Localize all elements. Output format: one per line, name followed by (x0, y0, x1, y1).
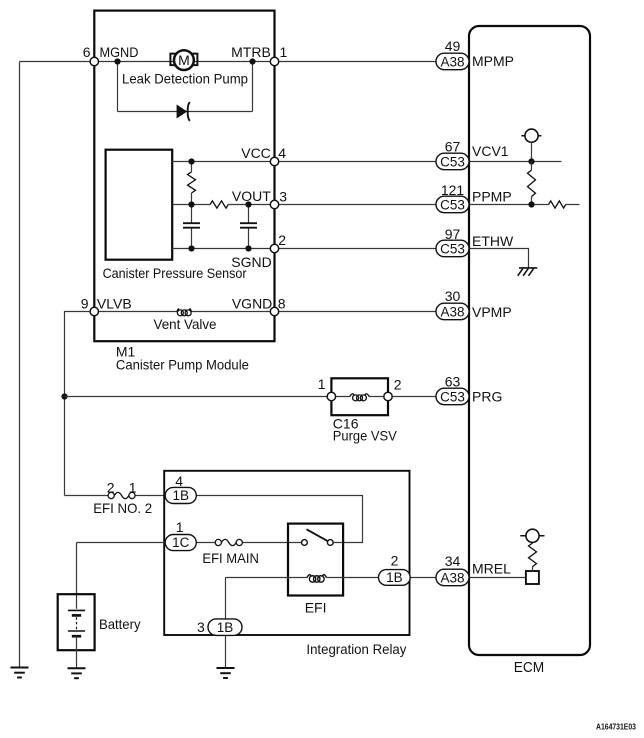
svg-text:C53: C53 (440, 154, 465, 169)
svg-text:C53: C53 (440, 241, 465, 256)
wire: EFI NO.2 fuse row (65, 495, 166, 497)
wire: VLVB stub and branch vertical (65, 312, 95, 496)
pin: VSV pin 1 terminal (327, 392, 335, 400)
connector: ECM C53 pin 121 (PPMP) (436, 196, 469, 213)
svg-text:A38: A38 (440, 304, 464, 319)
connector: ECM C53 pin 97 (ETHW) (436, 240, 469, 257)
pin: module pin 2 terminal (270, 244, 278, 252)
wire: relay pin4 to switch (196, 496, 362, 543)
svg-text:121: 121 (441, 182, 465, 198)
pin: module pin 4 terminal (270, 157, 278, 165)
pin: module pin 3 terminal (270, 200, 278, 208)
wire: battery feed vertical (76, 543, 78, 609)
node: VOUT-cap junction (245, 201, 251, 207)
svg-text:VPMP: VPMP (472, 304, 512, 320)
capacitor: VOUT filter b (240, 223, 257, 228)
wire: diode branch left vertical (117, 62, 119, 112)
svg-text:1B: 1B (217, 620, 234, 635)
wire: MGND/MTRB/MPMP top bus (20, 61, 437, 63)
node: junction MGND-diode (114, 58, 120, 64)
svg-text:1: 1 (129, 479, 137, 495)
svg-text:2: 2 (394, 377, 402, 393)
svg-text:2: 2 (278, 232, 286, 248)
fuse: EFI MAIN (215, 539, 242, 545)
svg-text:MGND: MGND (100, 44, 139, 60)
svg-text:1C: 1C (172, 535, 190, 550)
wire: far-left vertical ground bus (19, 62, 21, 668)
svg-text:Leak Detection Pump: Leak Detection Pump (122, 71, 248, 87)
svg-text:1: 1 (318, 376, 326, 392)
purge VSV C16 box (331, 378, 388, 415)
svg-text:A38: A38 (440, 54, 464, 69)
EFI relay inner box (288, 524, 343, 596)
ground: ETHW chassis ground (518, 268, 538, 276)
node: PPMP junction (528, 201, 534, 207)
power: B+ symbol above VCV1 (521, 129, 541, 161)
canister pump module M1 box (94, 11, 274, 342)
wire: vent valve row (94, 311, 436, 313)
wire: VOUT cap column (248, 205, 250, 249)
wire: VCV1 inside ECM (469, 161, 561, 163)
power: B+ symbol above MREL (520, 529, 544, 542)
svg-text:2: 2 (391, 552, 399, 568)
resistor: MREL pull-up (532, 567, 534, 571)
svg-text:Canister Pressure Sensor: Canister Pressure Sensor (103, 265, 247, 281)
svg-text:6: 6 (83, 44, 91, 60)
svg-text:EFI NO. 2: EFI NO. 2 (93, 500, 152, 516)
diode D1 (pump reverse protection) (177, 102, 190, 121)
ground: battery ground (68, 668, 86, 678)
svg-text:A164731E03: A164731E03 (596, 722, 636, 732)
integration relay box (164, 471, 409, 635)
node: SGND junction a (188, 245, 194, 251)
connector: relay pin 4 oval 1B (165, 487, 196, 503)
wire: EFI MAIN row (77, 542, 302, 544)
wire: VOUT row (172, 204, 436, 206)
node: PRG branch junction (61, 393, 67, 399)
ECM box (469, 26, 590, 655)
canister pressure sensor box (106, 150, 173, 260)
ground: relay pin 3 ground (217, 668, 235, 678)
inductor: vent valve coil (177, 309, 192, 316)
connector: ECM A38 pin 49 (MPMP) (436, 53, 469, 69)
svg-text:A38: A38 (440, 570, 464, 585)
wire: PRG row (65, 396, 437, 398)
svg-text:VGND: VGND (232, 296, 272, 312)
wire: EFI coil row (226, 577, 438, 579)
resistor: PPMP series (549, 201, 566, 208)
node: VCC junction (188, 158, 194, 164)
svg-text:9: 9 (81, 296, 89, 312)
load: MREL relay coil square (526, 571, 539, 584)
svg-text:VLVB: VLVB (97, 296, 132, 312)
svg-text:3: 3 (279, 189, 287, 205)
connector: relay pin 2 oval 1B (379, 570, 411, 586)
connector: relay pin 1 oval 1C (165, 535, 196, 551)
svg-text:49: 49 (445, 38, 461, 54)
wire: MREL inside ECM (469, 577, 526, 579)
svg-text:MTRB: MTRB (231, 44, 271, 60)
wire: SGND row (172, 248, 436, 250)
svg-text:Integration Relay: Integration Relay (306, 641, 406, 657)
svg-text:1: 1 (176, 519, 184, 535)
svg-text:Battery: Battery (99, 616, 141, 632)
resistor: sensor pull-up (188, 172, 196, 193)
node: VCV1 junction (528, 158, 534, 164)
connector: relay pin 3 oval 1B (208, 619, 242, 636)
svg-text:MPMP: MPMP (472, 53, 514, 69)
svg-text:30: 30 (445, 288, 461, 304)
wire: diode branch bottom horizontal (118, 111, 253, 113)
svg-text:63: 63 (445, 373, 461, 389)
svg-text:PPMP: PPMP (472, 188, 512, 204)
pin: VSV pin 2 terminal (384, 392, 392, 400)
svg-text:C53: C53 (440, 389, 465, 404)
battery cells symbol (68, 610, 85, 636)
svg-text:Canister Pump Module: Canister Pump Module (116, 356, 249, 372)
svg-text:Purge VSV: Purge VSV (333, 428, 398, 444)
svg-text:ECM: ECM (514, 659, 545, 676)
wire: PPMP inside ECM (469, 204, 580, 206)
svg-text:4: 4 (175, 473, 183, 489)
resistor: ECM pull-up VCV1-PPMP (531, 162, 533, 205)
pin: module pin 1 terminal (270, 57, 278, 65)
node: SGND junction b (245, 245, 251, 251)
resistor: VOUT series (210, 201, 228, 208)
fuse: EFI NO. 2 (108, 492, 135, 498)
wire: ETHW inside ECM (469, 249, 529, 268)
switch: EFI relay contacts (302, 529, 334, 545)
connector: ECM A38 pin 30 (VPMP) (436, 303, 469, 320)
svg-text:VOUT: VOUT (232, 188, 271, 204)
svg-text:2: 2 (107, 479, 115, 495)
svg-text:1: 1 (280, 44, 288, 60)
svg-text:4: 4 (278, 145, 286, 161)
connector: ECM C53 pin 67 (VCV1) (436, 153, 469, 170)
svg-text:M: M (178, 52, 190, 68)
svg-text:C53: C53 (440, 197, 465, 212)
svg-text:SGND: SGND (231, 254, 271, 270)
svg-text:VCC: VCC (241, 145, 271, 161)
inductor: EFI relay coil (307, 575, 327, 583)
svg-text:34: 34 (445, 553, 461, 569)
svg-text:97: 97 (445, 226, 461, 242)
svg-text:VCV1: VCV1 (472, 143, 509, 159)
svg-text:Vent Valve: Vent Valve (154, 316, 217, 332)
battery box (58, 594, 95, 650)
inductor: purge VSV coil (350, 394, 369, 401)
pin: module pin 9 terminal (90, 307, 98, 315)
svg-text:8: 8 (278, 296, 286, 312)
svg-text:EFI MAIN: EFI MAIN (202, 550, 259, 566)
svg-text:MREL: MREL (472, 561, 511, 577)
node: junction MTRB-diode (249, 58, 255, 64)
connector: ECM C53 pin 63 (PRG) (436, 388, 469, 405)
motor symbol: leak detection pump (170, 50, 197, 70)
wire: diode branch right vertical (252, 62, 254, 112)
pin: module pin 8 terminal (270, 307, 278, 315)
wire: relay pin3 vertical to ground (225, 578, 227, 669)
wire: sensor resistor column (191, 162, 193, 249)
svg-text:3: 3 (197, 619, 205, 635)
wire: VSV internal leads (331, 396, 388, 398)
svg-text:EFI: EFI (305, 600, 327, 616)
svg-text:67: 67 (445, 138, 461, 154)
ground: left bus ground (11, 668, 29, 678)
capacitor: sensor filter a (183, 223, 200, 228)
node: VOUT-resistor junction (188, 201, 194, 207)
svg-text:PRG: PRG (472, 388, 502, 404)
connector: ECM A38 pin 34 (MREL) (436, 569, 469, 586)
svg-text:ETHW: ETHW (472, 233, 514, 249)
wire: VCC row (172, 161, 436, 163)
svg-text:1B: 1B (173, 488, 190, 503)
pin: module pin 6 terminal (90, 57, 98, 65)
svg-text:1B: 1B (386, 570, 403, 585)
wire: battery to ground (76, 636, 78, 668)
